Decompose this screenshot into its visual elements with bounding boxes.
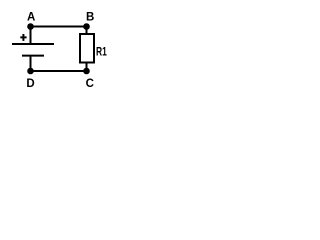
svg-text:R1: R1 [96,47,107,59]
svg-text:C: C [86,78,94,90]
resistor R1 body [80,34,94,63]
node D junction dot [27,68,34,75]
node C junction dot [83,68,90,75]
wire B down to resistor [86,27,88,35]
wire battery negative lead (plate down to D) [30,56,32,71]
node B junction dot [83,23,90,30]
wire top rail A to B [31,26,87,28]
battery V1 positive plate [12,43,54,45]
wire resistor down to C [86,62,88,71]
svg-text:B: B [86,11,94,23]
wire bottom rail D to C [31,70,87,72]
svg-text:A: A [27,11,35,23]
node A junction dot [27,23,34,30]
wire battery positive lead (A down to plate) [30,27,32,45]
battery V1 plus sign [20,34,26,41]
battery V1 negative plate [22,55,44,57]
svg-text:D: D [26,78,34,90]
